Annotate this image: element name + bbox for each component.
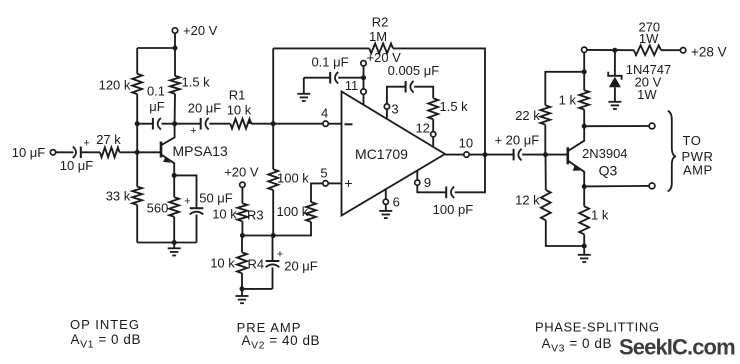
pin 5 [311, 165, 342, 202]
resistor 100 k lower [277, 202, 316, 222]
capacitor 20 uF coupling [175, 101, 231, 138]
pin 4 [321, 105, 342, 126]
svg-text:11: 11 [345, 78, 359, 93]
capacitor 0.005 uF [387, 63, 439, 104]
pin 3 [384, 102, 398, 119]
svg-text:1M: 1M [369, 29, 387, 44]
svg-text:+: + [190, 125, 196, 137]
resistor 1.5 k comp [428, 98, 468, 119]
label AV2 gain [242, 333, 321, 352]
svg-text:1W: 1W [637, 87, 657, 102]
resistor R4 10 k [210, 236, 264, 289]
zener D1 1N4747 [608, 50, 671, 102]
node 1k tee [582, 69, 587, 74]
svg-text:12 k: 12 k [515, 193, 540, 208]
node base junction [135, 150, 140, 155]
node 0.1uF junction [361, 75, 366, 80]
watermark SeekIC.com [619, 335, 735, 360]
svg-text:+20 V: +20 V [224, 165, 259, 180]
wire preamp bottom [242, 288, 273, 290]
node +20V tee [173, 46, 178, 51]
svg-text:+: + [83, 138, 89, 150]
wire input to C1 [56, 151, 74, 153]
op-amp U1 MC1709 [342, 92, 446, 216]
wire feedback vertical [272, 48, 274, 235]
svg-text:R1: R1 [229, 88, 246, 103]
ground pin 6 [379, 204, 392, 218]
svg-text:20 μF: 20 μF [284, 259, 318, 274]
svg-text:100 pF: 100 pF [433, 202, 474, 217]
wire +20V to pin11 [363, 66, 365, 89]
pin 9 [415, 170, 431, 190]
svg-text:3: 3 [391, 102, 398, 117]
svg-text:10 μF: 10 μF [60, 158, 94, 173]
transistor Q1 MPSA13 [161, 124, 228, 176]
svg-text:1 k: 1 k [591, 207, 609, 222]
wire C1 to R 27k [81, 151, 100, 153]
svg-text:OP INTEG: OP INTEG [70, 317, 140, 332]
wire +20V left rail [137, 33, 175, 76]
node 100k junction [271, 233, 276, 238]
label PRE AMP [237, 320, 302, 335]
capacitor 20 uF preamp [266, 236, 318, 289]
svg-text:560: 560 [147, 201, 169, 216]
svg-text:R3: R3 [247, 207, 264, 222]
ground zener [608, 102, 621, 109]
svg-text:1 k: 1 k [559, 93, 577, 108]
svg-text:+: + [277, 248, 283, 260]
resistor 1 k emitter [579, 187, 609, 247]
svg-text:1.5 k: 1.5 k [182, 75, 211, 90]
ground left stage [168, 243, 181, 256]
resistor 100 k upper [268, 169, 309, 190]
svg-text:20 μF: 20 μF [188, 101, 222, 116]
capacitor 100 pF [417, 155, 485, 217]
wire R27k to base node [120, 151, 161, 153]
svg-text:+: + [344, 175, 352, 191]
pin 6 [383, 189, 400, 210]
capacitor 20 uF output [494, 133, 566, 161]
svg-text:PHASE-SPLITTING: PHASE-SPLITTING [535, 320, 660, 335]
ground preamp [236, 289, 249, 303]
svg-text:10 μF: 10 μF [12, 145, 46, 160]
wire top rail [587, 49, 634, 51]
svg-text:+28 V: +28 V [691, 45, 727, 60]
svg-text:22 k: 22 k [515, 108, 540, 123]
capacitor 50 uF bypass [174, 175, 233, 242]
terminal 20V rail [582, 47, 587, 72]
svg-text:Q3: Q3 [599, 163, 618, 179]
node emitter Q3 [582, 184, 587, 189]
svg-text:2N3904: 2N3904 [582, 146, 628, 161]
svg-text:MPSA13: MPSA13 [173, 143, 228, 159]
svg-text:TO: TO [683, 133, 702, 148]
supply +20 V left [172, 23, 217, 38]
svg-text:0.005 μF: 0.005 μF [388, 63, 440, 78]
pin 12 [415, 119, 435, 146]
svg-text:+ 20 μF: + 20 μF [494, 133, 539, 148]
resistor 1 k collector [559, 72, 589, 126]
svg-text:4: 4 [321, 105, 328, 120]
label input 10 uF [12, 145, 46, 160]
capacitor 0.1 uF left [137, 84, 174, 130]
wire 270 to +28V [661, 49, 680, 51]
resistor R2 1M [369, 15, 393, 54]
svg-text:AMP: AMP [683, 163, 713, 178]
wire 1.5k to collector node [174, 94, 176, 124]
wire emitter output [584, 185, 649, 188]
node collector Q3 [582, 124, 587, 129]
pin 10 output [445, 135, 514, 157]
label PHASE-SPLITTING [535, 320, 660, 335]
terminal output bottom [649, 183, 655, 189]
ground 0.1uF [297, 78, 310, 101]
label AV3 gain [542, 336, 613, 355]
transistor Q3 2N3904 [568, 126, 628, 186]
resistor 270 1W [634, 20, 661, 56]
svg-text:1.5 k: 1.5 k [440, 99, 469, 114]
resistor 560 [147, 175, 179, 242]
wire emitter bottom rail [137, 242, 196, 244]
svg-text:10 k: 10 k [227, 103, 252, 118]
node output junction [483, 152, 488, 157]
svg-text:0.1: 0.1 [147, 84, 165, 99]
svg-text:120 k: 120 k [99, 78, 131, 93]
resistor 1.5 k [170, 75, 210, 94]
capacitor C1 10 uF [60, 138, 94, 174]
ground phase splitter [578, 246, 591, 262]
input terminal [50, 150, 55, 155]
svg-text:100 k: 100 k [277, 170, 309, 185]
wire R1 to pin4 [251, 123, 323, 125]
node emitter ground junction [582, 244, 587, 249]
terminal output top [649, 123, 655, 129]
svg-text:R4: R4 [248, 257, 265, 272]
resistor 33 k [106, 187, 142, 205]
node R3 junction [240, 233, 245, 238]
svg-text:10: 10 [459, 135, 473, 150]
node ground junction left [172, 240, 177, 245]
svg-text:10 k: 10 k [212, 206, 237, 221]
pin 11 [345, 78, 366, 105]
label OP INTEG [70, 317, 140, 332]
svg-text:27 k: 27 k [96, 132, 121, 147]
svg-text:+: + [184, 196, 190, 208]
resistor R1 10 k [227, 88, 253, 129]
terminal +28 V [680, 45, 726, 60]
supply +20 V op-amp [361, 50, 401, 66]
svg-text:50 μF: 50 μF [199, 191, 233, 206]
wire left vertical rail [136, 48, 138, 243]
svg-text:SeekIC.com: SeekIC.com [619, 335, 735, 360]
node pin4 junction [271, 121, 276, 126]
resistor 120 k [99, 74, 143, 94]
node emitter junction [172, 173, 177, 178]
capacitor 0.1 uF supply [304, 55, 364, 84]
node preamp ground junction [240, 286, 245, 291]
svg-text:MC1709: MC1709 [355, 146, 408, 162]
resistor 22 k [515, 72, 584, 155]
resistor R3 10 k [212, 188, 263, 236]
svg-text:12: 12 [415, 121, 429, 136]
brace to pwr amp [668, 111, 676, 192]
wire feedback top [273, 48, 485, 154]
svg-text:1W: 1W [639, 31, 659, 46]
svg-text:9: 9 [424, 175, 431, 190]
wire collector output [584, 125, 649, 127]
label AV1 gain [71, 332, 142, 351]
node base junction Q3 [543, 152, 548, 157]
svg-text:5: 5 [320, 165, 327, 180]
svg-text:0.1 μF: 0.1 μF [311, 55, 348, 70]
node collector junction [172, 121, 177, 126]
svg-text:R2: R2 [372, 15, 389, 30]
svg-text:μF: μF [149, 99, 164, 114]
svg-text:6: 6 [393, 195, 400, 210]
wire divider junction [242, 222, 311, 236]
svg-text:10 k: 10 k [210, 255, 235, 270]
svg-text:100 k: 100 k [277, 204, 309, 219]
label TO PWR AMP [682, 133, 714, 178]
node 120k junction [135, 121, 140, 126]
svg-text:33 k: 33 k [106, 189, 131, 204]
resistor 27 k [96, 132, 121, 157]
svg-text:+20 V: +20 V [183, 23, 218, 38]
resistor 12 k [515, 155, 584, 246]
supply +20 V preamp [224, 165, 259, 188]
node zener junction [612, 48, 617, 53]
